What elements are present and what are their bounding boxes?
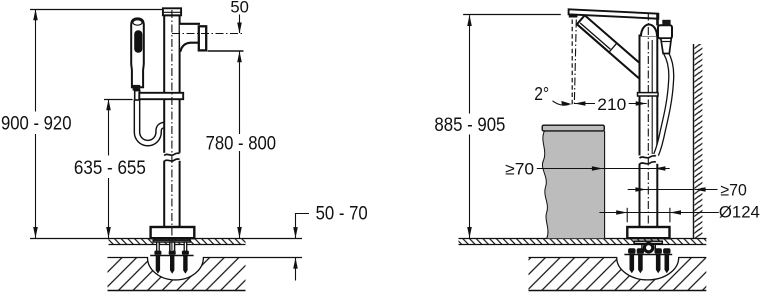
floor tile hatched band (right view) [459,239,707,245]
svg-text:210: 210 [597,96,626,114]
top cap (left view) [163,8,181,15]
dimension 635-655: vertical line [108,99,110,155]
concrete top line (right view) [529,258,707,280]
hand-shower hose loop (left view) [137,100,167,144]
anchor bolts (right view) [628,248,670,273]
svg-text:≥70: ≥70 [720,181,746,199]
concrete sub-floor hatched area with anchor cut-out (right view) [529,257,707,290]
dimension >=70 (column to wall) [628,189,694,191]
wall hatched band [694,44,702,238]
svg-text:635 - 655: 635 - 655 [74,158,146,179]
cap inner line [164,11,181,13]
svg-text:885 - 905: 885 - 905 [434,115,505,136]
svg-text:≥70: ≥70 [505,161,534,179]
dimension >=70 (tub to column) [537,168,670,170]
concrete sub-floor hatched area with anchor cut-out (left view) [108,257,246,290]
dimension 50 (spout drop): line and arrows [239,15,241,34]
hand shower wand (right view, tilted) [577,15,647,78]
floor tile hatched band (left view) [109,239,246,245]
svg-text:2°: 2° [534,84,549,104]
wall face line (right view) [693,44,695,238]
dimension 210 [574,103,595,105]
column break symbol (right view) [638,155,658,164]
2-degree leader arc and arrow [553,101,570,105]
control knob (right view) [662,20,670,26]
concrete bottom line (right view) [529,290,707,292]
dimension 780-800: vertical line [239,51,241,134]
wand stem to hose (left view) [135,91,140,100]
anchor bolts (left view) [154,251,189,274]
column inner line (right view) [651,40,653,154]
under-floor mounting frame (left view) [150,240,193,255]
spout centerline (left view) [172,33,244,35]
dimension 50-70 (floor build-up) [296,214,310,239]
base plate (left view) [151,227,195,238]
wand holder bracket on column (left view) [139,93,183,99]
base plate (right view) [627,227,669,238]
column centerline (left view) [171,10,173,254]
2-degree axis line (dash-dot, tilted) [574,20,576,107]
spout lower reference line (left view) [208,50,244,52]
shower hose (right view) [656,53,671,155]
svg-text:780 - 800: 780 - 800 [206,133,276,154]
riser column (left view) [164,15,179,227]
concrete top line (left view) [108,258,303,280]
floor band bottom line (left view) [109,244,246,246]
valve body (right view) [658,25,672,38]
svg-text:900 - 920: 900 - 920 [1,114,72,135]
hand shower wand (left view) [131,18,144,87]
svg-text:50 - 70: 50 - 70 [316,204,368,225]
floor finished-surface line (right view) [459,238,707,240]
floor finished-surface line (left view) [30,238,302,240]
spout outlet block (left view) [199,26,206,50]
spout right-end drop (right view) [656,14,659,26]
svg-text:50: 50 [230,0,249,16]
shower holder collar (right view) [638,93,659,96]
concrete bottom line (left view) [108,290,246,292]
column centerline (right view) [647,13,649,254]
dimension 885-905: top reference line [463,14,561,16]
2-degree plumb line (dashed) [571,20,573,107]
svg-text:Ø124: Ø124 [719,203,760,221]
dimension 900-920: top reference line [30,9,163,11]
hose cone connector (right view) [661,38,672,53]
dimension 635-655: reference line [104,99,133,101]
riser column (right view) [640,36,658,228]
dimension 885-905: vertical line [469,15,471,113]
spout outlet lip (right view) [569,14,578,17]
under-floor mounting frame (right view) [624,241,672,254]
wand hose nut (left view) [133,85,141,91]
dimension 900-920: vertical line [35,10,37,112]
spout arm (left view) [180,24,200,52]
column dome top (right view) [641,25,657,37]
bathtub rim cross-section (grey) [542,125,604,238]
dimension diameter 124 [599,212,718,214]
floor band bottom line (right view) [459,244,707,246]
spout bar (right view) [569,9,659,18]
column break symbol (left view) [163,153,181,162]
